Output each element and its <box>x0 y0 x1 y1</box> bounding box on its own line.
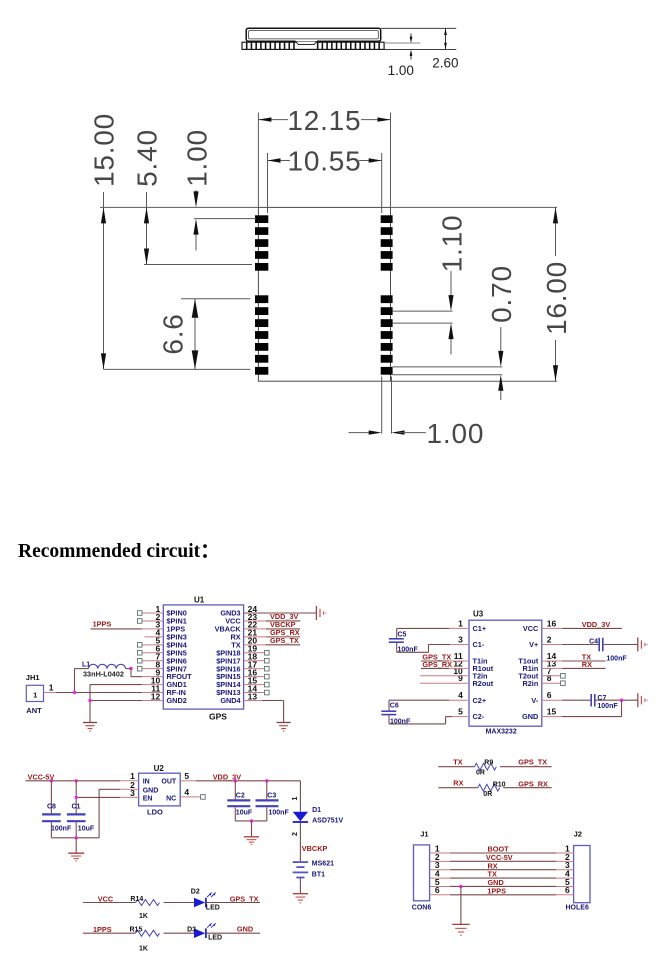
svg-text:MS621: MS621 <box>312 861 334 868</box>
svg-text:D1: D1 <box>312 807 321 814</box>
svg-text:VCC: VCC <box>98 894 114 903</box>
svg-text:16.00: 16.00 <box>541 261 572 335</box>
svg-text:J1: J1 <box>420 829 428 838</box>
svg-text:RX: RX <box>453 779 463 788</box>
svg-text:100nF: 100nF <box>390 718 411 725</box>
svg-text:L1: L1 <box>82 662 90 669</box>
svg-text:1.10: 1.10 <box>436 215 467 273</box>
svg-text:1K: 1K <box>139 913 148 920</box>
svg-text:16: 16 <box>547 618 557 628</box>
svg-text:GPS_RX: GPS_RX <box>518 779 548 788</box>
svg-text:GND: GND <box>237 925 253 934</box>
svg-text:10uF: 10uF <box>78 825 95 832</box>
svg-text:IN: IN <box>143 778 150 785</box>
svg-text:CON6: CON6 <box>412 905 432 912</box>
svg-text:100nF: 100nF <box>606 655 627 662</box>
svg-text:BT1: BT1 <box>312 871 325 878</box>
svg-text:NC: NC <box>166 795 176 802</box>
svg-text:15.00: 15.00 <box>89 113 120 187</box>
svg-text:15: 15 <box>547 707 557 717</box>
svg-text:J2: J2 <box>574 829 582 838</box>
svg-text:C6: C6 <box>390 703 399 710</box>
svg-text:6: 6 <box>565 885 570 895</box>
svg-text:MAX3232: MAX3232 <box>486 729 517 736</box>
svg-text:HOLE6: HOLE6 <box>566 905 589 912</box>
svg-text:1: 1 <box>292 796 299 800</box>
svg-text:C1-: C1- <box>473 640 485 649</box>
svg-text:ANT: ANT <box>26 706 42 715</box>
svg-text:100nF: 100nF <box>398 647 419 654</box>
svg-text:D3: D3 <box>187 927 196 934</box>
svg-text:VDD_3V: VDD_3V <box>582 620 611 629</box>
svg-text:OUT: OUT <box>161 778 177 785</box>
svg-text:2.60: 2.60 <box>432 56 458 71</box>
svg-text:6: 6 <box>435 885 440 895</box>
svg-text:RX: RX <box>582 660 592 669</box>
svg-text:C5: C5 <box>398 632 407 639</box>
svg-text:R2out: R2out <box>473 679 494 688</box>
svg-text:2: 2 <box>547 635 552 645</box>
svg-text:R10: R10 <box>493 781 506 788</box>
svg-text:U3: U3 <box>473 609 484 618</box>
svg-text:3: 3 <box>458 635 463 645</box>
svg-text:LED: LED <box>206 905 220 912</box>
svg-text:EN: EN <box>143 795 153 802</box>
svg-text:C1+: C1+ <box>473 624 487 633</box>
svg-text:JH1: JH1 <box>26 673 40 682</box>
svg-text:1.00: 1.00 <box>427 418 485 449</box>
svg-text:10uF: 10uF <box>236 810 253 817</box>
svg-text:4: 4 <box>184 787 189 797</box>
svg-text:TX: TX <box>453 757 462 766</box>
svg-text:1K: 1K <box>139 945 148 952</box>
svg-text:C2: C2 <box>236 792 245 799</box>
svg-text:6.6: 6.6 <box>158 313 189 354</box>
svg-text:100nF: 100nF <box>269 810 290 817</box>
svg-text:1.00: 1.00 <box>182 129 213 187</box>
svg-text:C2-: C2- <box>473 712 485 721</box>
svg-text:C8: C8 <box>47 803 56 810</box>
svg-text:33nH-L0402: 33nH-L0402 <box>83 669 124 678</box>
svg-text:VDD_3V: VDD_3V <box>213 772 242 781</box>
svg-text:1: 1 <box>49 683 54 693</box>
svg-text:1PPS: 1PPS <box>93 925 112 934</box>
svg-text:C1: C1 <box>72 803 81 810</box>
svg-text:6: 6 <box>547 690 552 700</box>
svg-text:1: 1 <box>458 618 463 628</box>
svg-text:GPS: GPS <box>209 711 227 721</box>
svg-text:C3: C3 <box>267 792 276 799</box>
svg-text:GND4: GND4 <box>220 696 241 705</box>
svg-text:Recommended circuit：: Recommended circuit： <box>18 541 220 562</box>
svg-text:D2: D2 <box>191 889 200 896</box>
svg-text:5: 5 <box>458 707 463 717</box>
svg-text:9: 9 <box>458 673 463 683</box>
svg-text:GPS_TX: GPS_TX <box>230 894 259 903</box>
svg-text:10.55: 10.55 <box>287 146 361 177</box>
svg-text:R9: R9 <box>484 759 493 766</box>
svg-text:2: 2 <box>292 832 299 836</box>
svg-text:0R: 0R <box>476 769 485 776</box>
svg-text:1PPS: 1PPS <box>93 620 112 629</box>
svg-text:ASD751V: ASD751V <box>312 817 343 824</box>
svg-text:V+: V+ <box>529 640 538 649</box>
svg-text:U1: U1 <box>194 596 205 605</box>
svg-text:1.00: 1.00 <box>388 63 414 78</box>
svg-text:GPS_RX: GPS_RX <box>422 660 452 669</box>
svg-text:100nF: 100nF <box>51 825 72 832</box>
svg-text:8: 8 <box>547 673 552 683</box>
svg-text:5.40: 5.40 <box>132 129 163 187</box>
svg-text:C2+: C2+ <box>473 696 487 705</box>
svg-text:100nF: 100nF <box>597 703 618 710</box>
svg-text:1: 1 <box>33 690 37 699</box>
svg-text:GND: GND <box>522 712 538 721</box>
svg-text:LDO: LDO <box>147 808 163 817</box>
svg-text:GND2: GND2 <box>167 696 187 705</box>
svg-text:GND: GND <box>143 788 159 795</box>
svg-text:GPS_TX: GPS_TX <box>518 757 547 766</box>
svg-text:V-: V- <box>531 696 538 705</box>
svg-text:12.15: 12.15 <box>287 105 361 136</box>
svg-text:C7: C7 <box>597 695 606 702</box>
svg-text:C4: C4 <box>589 638 598 645</box>
svg-text:LED: LED <box>208 935 222 942</box>
svg-text:VCC: VCC <box>523 624 539 633</box>
svg-text:1PPS: 1PPS <box>487 886 506 895</box>
svg-text:4: 4 <box>458 690 463 700</box>
svg-text:VBCKP: VBCKP <box>302 844 328 853</box>
svg-text:R14: R14 <box>130 896 143 903</box>
svg-text:0R: 0R <box>483 791 492 798</box>
svg-text:5: 5 <box>184 771 189 781</box>
svg-text:R2in: R2in <box>522 679 538 688</box>
svg-text:0.70: 0.70 <box>486 265 517 323</box>
svg-text:U2: U2 <box>154 764 165 773</box>
svg-text:GPS_TX: GPS_TX <box>270 636 299 645</box>
svg-text:R15: R15 <box>130 926 143 933</box>
